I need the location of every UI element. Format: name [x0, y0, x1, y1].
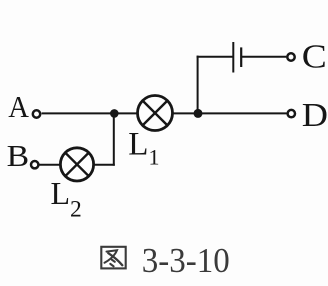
caption glyph tu (figure) — [101, 247, 125, 269]
svg-text:3-3-10: 3-3-10 — [142, 241, 230, 280]
terminal A — [33, 110, 40, 117]
wire to battery — [197, 56, 233, 58]
terminal D — [288, 110, 295, 117]
lamp L2 — [60, 148, 93, 181]
terminal C — [287, 53, 294, 60]
lamp L1 — [138, 96, 173, 131]
svg-text:1: 1 — [149, 145, 160, 170]
svg-text:L: L — [51, 175, 71, 211]
svg-text:C: C — [302, 38, 327, 75]
svg-text:2: 2 — [70, 196, 82, 222]
wire B to lamp L2 — [39, 164, 61, 166]
svg-text:B: B — [7, 138, 30, 173]
wire battery to terminal C — [242, 56, 286, 58]
junction dot left — [110, 109, 119, 118]
wire corner up to junction — [113, 112, 115, 165]
svg-text:D: D — [302, 97, 328, 134]
terminal B — [31, 161, 38, 168]
svg-text:A: A — [8, 89, 29, 124]
wire junction up — [197, 56, 199, 114]
battery E — [233, 42, 241, 73]
label L2 — [51, 175, 82, 222]
wire A to lamp L1 — [42, 112, 138, 114]
junction dot right — [194, 109, 203, 118]
svg-text:L: L — [128, 127, 148, 163]
label L1 — [128, 127, 159, 170]
wire lamp L2 to corner — [93, 164, 114, 166]
wire lamp L1 to terminal D — [173, 112, 287, 114]
